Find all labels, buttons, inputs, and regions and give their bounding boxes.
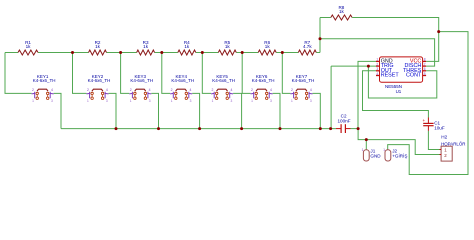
junction: rail/key drop — [281, 51, 284, 54]
connector J1 GND — [362, 148, 382, 161]
svg-text:3: 3 — [270, 99, 272, 103]
svg-text:2: 2 — [291, 88, 293, 92]
svg-text:2: 2 — [87, 88, 89, 92]
svg-text:2: 2 — [130, 88, 132, 92]
svg-text:4: 4 — [376, 72, 378, 76]
wire: top rail segment — [38, 52, 89, 54]
svg-text:HOPARLÖR: HOPARLÖR — [441, 141, 465, 146]
wire: 555 GND pin down to GND node — [358, 61, 376, 128]
svg-text:3: 3 — [106, 99, 108, 103]
svg-text:2: 2 — [212, 88, 214, 92]
wire: rail drop to key left pin — [202, 53, 211, 94]
svg-text:4: 4 — [270, 88, 272, 92]
svg-text:H2: H2 — [441, 134, 447, 139]
pushbutton KEY2 (K4-6x6_TH) — [87, 74, 111, 103]
svg-text:1: 1 — [383, 148, 385, 152]
svg-text:1: 1 — [87, 99, 89, 103]
wire: TRIG line — [331, 65, 376, 67]
svg-text:GND: GND — [370, 153, 381, 158]
svg-text:K4-6x6_TH: K4-6x6_TH — [252, 78, 275, 83]
wire: C2 to GND node — [351, 128, 359, 130]
wire: top rail segment — [196, 52, 219, 54]
svg-text:+: + — [422, 118, 425, 123]
svg-text:1: 1 — [251, 99, 253, 103]
wire: bus riser to TRIG — [330, 66, 332, 129]
svg-text:1k: 1k — [265, 44, 271, 49]
wire: GND net to H2 pin2 — [358, 129, 439, 155]
svg-text:1k: 1k — [225, 44, 231, 49]
capacitor C2 100nF — [336, 114, 351, 133]
svg-text:4: 4 — [51, 88, 53, 92]
wire: key right pin down to bus — [192, 93, 199, 128]
svg-text:K4-6x6_TH: K4-6x6_TH — [292, 78, 315, 83]
svg-text:1: 1 — [212, 99, 214, 103]
junction: bus/TRIG riser — [329, 127, 332, 130]
svg-text:3: 3 — [190, 99, 192, 103]
pushbutton KEY3 (K4-6x6_TH) — [129, 74, 153, 103]
junction: VCC net — [437, 30, 440, 33]
wire: top rail segment — [236, 52, 258, 54]
wire: rail drop to key left pin — [121, 53, 130, 94]
junction: bus/key drop — [115, 127, 118, 130]
wire: key right pin down to bus — [151, 93, 158, 128]
wire: top rail segment — [316, 52, 320, 54]
resistor R1 — [18, 40, 38, 55]
svg-text:4: 4 — [149, 88, 151, 92]
pushbutton KEY1 (K4-6x6_TH) — [32, 74, 56, 103]
svg-text:1: 1 — [291, 99, 293, 103]
wire: key right pin down to bus — [233, 93, 242, 128]
svg-text:2: 2 — [171, 88, 173, 92]
svg-text:2: 2 — [32, 88, 34, 92]
resistor R6 — [258, 40, 276, 55]
wire: left drop to KEY1 — [5, 53, 32, 94]
capacitor C1 10uF (polarized) — [422, 118, 444, 131]
wire: key right pin down to bus — [313, 93, 321, 128]
pushbutton KEY4 (K4-6x6_TH) — [170, 74, 194, 103]
wire: second rail to DISCH pin — [320, 39, 435, 66]
wire: top rail segment — [155, 52, 178, 54]
svg-text:K4-6x6_TH: K4-6x6_TH — [88, 78, 111, 83]
junction: rail/key drop — [119, 51, 122, 54]
svg-text:1: 1 — [376, 58, 378, 62]
resistor R2 — [89, 40, 107, 55]
junction: bus end / GND — [357, 127, 360, 130]
wire: GND net to J1 — [365, 140, 367, 150]
wire: key right pin down to bus — [54, 93, 61, 128]
junction: riser/second rail — [319, 37, 322, 40]
wire: TRIG to THRES loop — [368, 66, 436, 98]
resistor R3 — [137, 40, 155, 55]
connector J2 +GIRIS — [383, 148, 407, 161]
pushbutton KEY5 (K4-6x6_TH) — [211, 74, 235, 103]
svg-text:4.7k: 4.7k — [303, 44, 312, 49]
svg-text:U1: U1 — [396, 89, 402, 94]
junction: bus/key drop — [240, 127, 243, 130]
wire: OUT pin to C1 — [363, 71, 429, 118]
svg-text:4: 4 — [310, 88, 312, 92]
wire: key right pin down to bus — [273, 93, 280, 128]
junction: rail/key drop — [201, 51, 204, 54]
svg-text:K4-6x6_TH: K4-6x6_TH — [130, 78, 153, 83]
junction: bus/key drop — [157, 127, 160, 130]
junction: bus/key drop — [319, 127, 322, 130]
wire: rail drop to key left pin — [162, 53, 170, 94]
svg-text:K4-6x6_TH: K4-6x6_TH — [171, 78, 194, 83]
svg-text:4: 4 — [190, 88, 192, 92]
svg-text:6: 6 — [424, 67, 426, 71]
svg-text:2: 2 — [251, 88, 253, 92]
svg-text:3: 3 — [51, 99, 53, 103]
resistor R4 — [178, 40, 196, 55]
svg-text:4: 4 — [106, 88, 108, 92]
junction: bus/key drop — [279, 127, 282, 130]
svg-text:1k: 1k — [26, 44, 32, 49]
svg-text:1: 1 — [32, 99, 34, 103]
svg-text:2: 2 — [376, 62, 378, 66]
svg-text:3: 3 — [376, 67, 378, 71]
wire: R8 rail left — [320, 17, 331, 19]
junction: rail/key drop — [71, 51, 74, 54]
wire: bottom bus to C2 — [61, 128, 336, 130]
wire: VCC net to J2 +GIRIS — [388, 32, 468, 175]
svg-text:+GİRİŞ: +GİRİŞ — [392, 152, 407, 158]
resistor R5 — [218, 40, 236, 55]
svg-text:3: 3 — [149, 99, 151, 103]
svg-text:3: 3 — [310, 99, 312, 103]
svg-text:1: 1 — [362, 148, 364, 152]
wire: top rail segment — [276, 52, 298, 54]
connector H2 HOPARLOR (speaker) — [440, 134, 466, 161]
junction: TRIG branch — [367, 65, 370, 68]
wire: top rail segment — [5, 52, 18, 54]
svg-text:1k: 1k — [184, 44, 190, 49]
svg-text:1: 1 — [171, 99, 173, 103]
svg-text:1k: 1k — [95, 44, 101, 49]
pushbutton KEY6 (K4-6x6_TH) — [251, 74, 275, 103]
wire: rail drop to key left pin — [242, 53, 250, 94]
svg-text:K4-6x6_TH: K4-6x6_TH — [212, 78, 235, 83]
wire: key right pin down to bus — [109, 93, 117, 128]
wire: rail drop to key left pin — [282, 53, 290, 94]
junction: rail/key drop — [241, 51, 244, 54]
svg-text:7: 7 — [424, 62, 426, 66]
wire: top rail segment — [107, 52, 137, 54]
svg-text:8: 8 — [424, 58, 426, 62]
resistor R7 — [298, 40, 316, 55]
svg-text:CONT: CONT — [406, 73, 422, 79]
svg-text:4: 4 — [230, 88, 232, 92]
pushbutton KEY7 (K4-6x6_TH) — [291, 74, 315, 103]
svg-text:5: 5 — [424, 72, 426, 76]
svg-text:RESET: RESET — [381, 73, 400, 79]
junction: bus/key drop — [198, 127, 201, 130]
svg-text:100nF: 100nF — [337, 118, 350, 123]
wire: R8 rail right down to VCC pin — [352, 18, 439, 62]
wire: C1 to H2 pin1 — [428, 131, 439, 150]
svg-text:1k: 1k — [339, 9, 345, 14]
svg-text:1k: 1k — [143, 44, 149, 49]
svg-text:10uF: 10uF — [434, 125, 445, 130]
junction: rail/key drop — [160, 51, 163, 54]
resistor R8 — [331, 5, 352, 20]
wire: rail drop to key left pin — [73, 53, 87, 94]
svg-text:3: 3 — [231, 99, 233, 103]
wire: riser R7 to R8 rail — [319, 18, 321, 53]
junction: GND net / J1 — [365, 138, 368, 141]
svg-text:1: 1 — [130, 99, 132, 103]
op-amp/timer U1 NE555N — [376, 57, 426, 94]
svg-text:K4-6x6_TH: K4-6x6_TH — [33, 78, 56, 83]
